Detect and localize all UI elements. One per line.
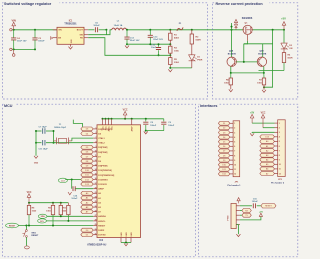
supply symbol +5V JP3 [259,212,263,217]
svg-text:D12: D12 [222,174,225,176]
wire DTR row [240,205,252,207]
svg-text:AREF: AREF [131,125,134,131]
svg-text:C7 18pF: C7 18pF [39,126,48,128]
svg-text:D6[PWM]: D6[PWM] [98,152,107,154]
wire emitter rail [230,66,265,74]
capacitor C5 [32,30,45,50]
switch SW1 reset button [22,226,39,246]
transistor Q1 SI2323DS p-mosfet [242,18,253,41]
wire divider to LED return [170,67,192,69]
fuse F1 on output rail [177,23,183,31]
svg-text:C11 18pF: C11 18pF [39,148,49,150]
svg-text:EN: EN [58,38,61,40]
net flag SCL [38,219,47,223]
supply symbol +5V output [281,17,286,30]
svg-text:XTAL1: XTAL1 [98,137,105,140]
svg-text:D10[PWM/SS]: D10[PWM/SS] [98,170,112,172]
ground IC1 GND pin [69,44,73,49]
pad circle input ground [10,48,15,56]
resistor R4 [282,53,293,71]
svg-text:MCU: MCU [4,104,13,108]
inductor L1 [112,20,127,30]
resistor R2 [190,30,201,44]
svg-text:100k: 100k [174,51,180,53]
ground aref cap [68,192,72,195]
capacitor C10 feed-forward [151,43,161,56]
ground R6 [229,89,233,92]
svg-text:11: 11 [279,169,281,171]
capacitor C8 decoupling [143,119,157,132]
supply symbol VCC above IC2 [123,109,128,118]
svg-text:100nF: 100nF [71,198,78,200]
svg-text:16: 16 [95,178,97,180]
svg-text:10: 10 [279,164,281,166]
microcontroller IC2 ATMEGA328P-AU [87,125,140,247]
svg-text:13: 13 [95,164,97,166]
svg-text:A0: A0 [266,140,268,143]
svg-text:10nF: 10nF [151,47,157,49]
resistor R9 pullup [46,203,55,226]
svg-text:25: 25 [95,201,97,203]
svg-text:FB: FB [80,38,83,40]
svg-text:A4: A4 [266,159,268,162]
svg-text:VIN: VIN [58,30,62,32]
svg-text:RESET: RESET [31,235,39,237]
svg-text:100nF: 100nF [150,125,157,127]
svg-text:Q2B: Q2B [259,51,264,53]
svg-text:Q2A: Q2A [229,50,234,53]
wire RESET row [19,225,94,227]
wire VCC pullup rail [28,202,68,204]
connector JP1 pin header 1 [228,121,242,187]
frame: MCU section [3,102,196,257]
svg-text:100nF: 100nF [252,201,259,203]
frame: interfaces section [199,102,298,257]
svg-text:BC847B: BC847B [228,53,236,56]
svg-text:D1/TXD: D1/TXD [98,235,106,237]
net flags IC2 left pins [81,127,93,237]
svg-text:5: 5 [234,142,235,144]
svg-text:XTAL2: XTAL2 [98,142,105,145]
svg-text:D13/SCK: D13/SCK [98,184,107,186]
svg-text:8: 8 [279,155,280,157]
svg-text:D5[PWM]: D5[PWM] [98,147,107,149]
svg-text:Pin header 2: Pin header 2 [271,183,285,185]
svg-text:A4/SDA: A4/SDA [98,215,106,218]
LED D1 power indicator [189,44,203,68]
svg-text:L13: L13 [61,180,64,182]
capacitor C15 dtr reset [252,199,261,209]
node SW: boot cap to switch wire [105,29,107,35]
crystal Y1 16MHz [54,124,72,144]
svg-text:7: 7 [96,137,97,139]
resistor R1 [169,30,180,45]
net flags JP1 [218,121,230,175]
ground R7 [262,90,266,93]
supply symbol VIN [10,18,16,31]
wire JP2 pin1 [252,122,274,124]
ground crystal caps [34,130,39,164]
svg-text:9: 9 [96,146,97,148]
svg-text:1: 1 [234,123,235,125]
svg-text:BC847B: BC847B [258,53,266,56]
svg-text:1: 1 [96,128,97,130]
LED D2 on indicator [281,30,293,53]
svg-text:D2: D2 [223,128,225,130]
svg-text:A5: A5 [266,163,268,166]
svg-text:17: 17 [95,183,97,185]
svg-text:RESET: RESET [9,225,16,227]
svg-text:VCC: VCC [261,112,266,114]
svg-text:ATMEGA328P-AU: ATMEGA328P-AU [87,244,107,247]
ground JP3 [236,234,240,237]
svg-text:8: 8 [234,155,235,157]
svg-text:100nF: 100nF [38,41,45,43]
svg-text:D8: D8 [223,155,225,157]
svg-text:+5V: +5V [281,17,286,21]
svg-text:D9[PWM]: D9[PWM] [98,166,107,168]
svg-text:AREF: AREF [98,188,104,191]
svg-text:A2: A2 [266,149,268,152]
svg-text:D11[PWM/MOSI]: D11[PWM/MOSI] [98,175,114,177]
svg-text:SI2323DS: SI2323DS [242,18,253,20]
svg-text:RESET: RESET [265,206,272,208]
net flag TX [240,213,251,217]
svg-text:PWR: PWR [197,59,203,61]
svg-text:GND: GND [71,39,73,44]
svg-text:20: 20 [95,187,97,189]
wire bottom ground link [121,242,131,244]
svg-text:D5: D5 [223,142,225,144]
frame: reverse current protection section [213,0,298,99]
svg-text:23: 23 [95,192,97,194]
svg-text:VCC: VCC [102,126,104,131]
svg-text:A3: A3 [266,154,268,157]
wire Q3 collector riser [262,44,264,57]
svg-text:D1: D1 [223,123,225,125]
svg-text:27: 27 [95,215,97,217]
capacitor C12 output [124,30,140,45]
svg-text:12: 12 [95,160,97,162]
net stub EN pin [50,37,53,40]
wire LED return [259,70,285,72]
svg-text:GND: GND [131,232,133,237]
svg-text:12: 12 [279,173,281,175]
svg-text:+5V: +5V [250,112,255,114]
wire base link [236,61,257,63]
svg-text:2: 2 [279,128,280,130]
wire SW pin run [88,30,111,35]
frame: switched voltage regulator section [3,0,208,99]
svg-text:A1: A1 [266,145,268,148]
wire gnd JP3 row [236,225,238,235]
svg-text:26: 26 [95,206,97,208]
ground output caps [125,46,129,49]
supply symbol +5V JP2 [250,112,255,123]
svg-text:2: 2 [96,132,97,134]
net flag RESET jp3 [261,204,276,208]
svg-text:AVCC: AVCC [107,126,110,132]
wire crystal left riser [53,130,55,144]
wire crystal top link [73,120,82,127]
svg-text:Pin header 1: Pin header 1 [228,185,242,187]
net flags JP2 [260,135,275,176]
svg-text:A7: A7 [266,172,268,175]
net flag RX [240,209,251,213]
svg-text:D4: D4 [223,137,225,139]
svg-text:10: 10 [234,165,236,167]
svg-text:29: 29 [95,224,97,226]
wire VCC rail above IC2 [102,118,164,120]
net flag D13 left [58,178,67,182]
ground pins IC2 bottom [121,232,133,243]
wire SCL row [46,220,93,222]
net flag RESET [6,223,19,228]
svg-text:3: 3 [234,132,235,134]
wire D13 row tap [65,179,81,181]
diode D3 gate clamp [234,19,237,29]
wire FB feedback [88,38,170,56]
wire JP2 pin3 gnd [252,132,274,133]
svg-text:7: 7 [279,150,280,152]
svg-text:7: 7 [234,151,235,153]
net flag SDA [38,214,47,218]
svg-text:D11: D11 [222,169,225,171]
svg-text:44k9: 44k9 [174,36,180,39]
svg-text:9: 9 [279,160,280,162]
svg-text:16MHz 18pF: 16MHz 18pF [54,127,67,129]
svg-text:D13: D13 [265,137,268,139]
svg-text:SDA: SDA [41,215,46,218]
svg-text:D3: D3 [223,132,225,134]
svg-text:6: 6 [234,146,235,148]
resistor R11 scl pullup [62,203,71,221]
wire SDA row [47,215,93,217]
ground divider bottom [168,69,172,72]
svg-text:10: 10 [95,151,97,153]
capacitor C4 [11,30,27,50]
svg-text:D7: D7 [223,151,225,153]
svg-text:GND: GND [34,162,39,164]
wire input ground rail [12,48,36,50]
svg-text:9: 9 [234,160,235,162]
svg-text:100nF: 100nF [168,125,175,127]
svg-text:560R: 560R [288,58,293,60]
wire right pulldown branch [263,30,273,88]
svg-text:3: 3 [279,132,280,134]
resistor R3 [169,44,180,56]
svg-text:5: 5 [279,141,280,143]
power pins IC2 top [102,119,133,132]
ground decoupling caps [144,131,148,134]
wire +5V JP3 row [240,216,261,220]
svg-text:33k5: 33k5 [174,62,180,64]
svg-text:VCC: VCC [111,126,113,131]
svg-text:22: 22 [95,210,97,212]
svg-text:ON: ON [289,48,293,50]
resistor R6 [224,73,232,89]
svg-text:FTDI: FTDI [227,215,229,220]
svg-text:100nF: 100nF [93,25,100,27]
node AREF riser [71,180,73,189]
svg-text:A6: A6 [266,168,268,171]
svg-text:2: 2 [234,128,235,130]
capacitor C6 bootstrap [88,22,106,32]
svg-text:22uF 16V: 22uF 16V [153,39,163,41]
transistor Q3 BC847B [257,51,267,67]
supply symbol VCC JP2 [261,112,266,127]
wire JP2 pin2 [263,127,275,129]
svg-text:30: 30 [95,229,97,231]
svg-text:1: 1 [279,123,280,125]
svg-text:BOOT: BOOT [77,30,84,32]
ground switch pad [25,246,30,249]
svg-text:D12/MISO: D12/MISO [98,179,108,181]
svg-text:11: 11 [234,169,236,171]
svg-text:D10: D10 [222,165,225,167]
capacitor C14 aref [71,186,93,200]
wire gate to bases [244,41,273,62]
svg-text:31: 31 [95,233,97,235]
wire XTAL2 row [35,142,93,144]
svg-text:Switched voltage regulator: Switched voltage regulator [4,2,52,6]
svg-text:12: 12 [234,174,236,176]
svg-text:Reverse current protection: Reverse current protection [216,2,264,6]
capacitor C7 crystal [36,126,54,133]
ground JP2 [250,133,254,136]
wire gate pull network [231,23,233,57]
svg-text:RESET: RESET [98,225,106,227]
svg-text:10uF 16V: 10uF 16V [17,41,27,43]
resistor R5 [169,55,180,69]
svg-text:28: 28 [95,220,97,222]
svg-text:GND: GND [126,232,128,237]
svg-text:TPS562201: TPS562201 [64,24,77,26]
supply symbol VCC pullups [27,192,32,203]
connector JP2 pin header 2 [271,120,285,185]
svg-text:SW: SW [79,35,82,37]
wire +5V output rail [126,29,285,31]
svg-text:6: 6 [279,146,280,148]
svg-text:4: 4 [234,136,235,139]
svg-text:4: 4 [279,136,280,139]
wire VIN input rail [12,29,57,31]
ground IC2 [124,243,128,246]
wire cap ground link [127,43,170,45]
resistor R8 reset pullup [27,203,37,226]
svg-text:D9: D9 [223,160,225,162]
svg-text:11: 11 [95,155,97,157]
wire XTAL1 row [72,138,93,141]
svg-text:10uH 1A: 10uH 1A [114,24,123,27]
svg-text:22uF 16V: 22uF 16V [130,40,140,42]
pin names and numbers IC2 left side [93,128,114,237]
svg-text:560R: 560R [196,40,202,42]
connector JP3 FTDI header [227,203,240,228]
capacitor C9 decoupling [161,119,175,131]
capacitor C11 crystal [39,140,49,150]
svg-text:15: 15 [95,174,97,176]
svg-text:VCC: VCC [105,126,107,131]
capacitor C13 output [148,30,164,45]
svg-text:D0/RX: D0/RX [98,230,105,232]
resistor R7 [257,73,266,90]
svg-text:D6: D6 [223,146,225,148]
svg-text:8: 8 [96,141,97,143]
op-amp-style regulator IC1 TPS562201 [53,21,88,45]
svg-text:Interfaces: Interfaces [200,104,217,108]
svg-text:GND: GND [121,232,123,237]
wire decoupling ground link [146,130,164,132]
resistor R10 sda pullup [59,203,62,217]
supply arrow JP3 top [237,198,240,204]
svg-text:A5/SCL: A5/SCL [98,220,106,223]
transistor Q2 BC847B [227,50,236,67]
